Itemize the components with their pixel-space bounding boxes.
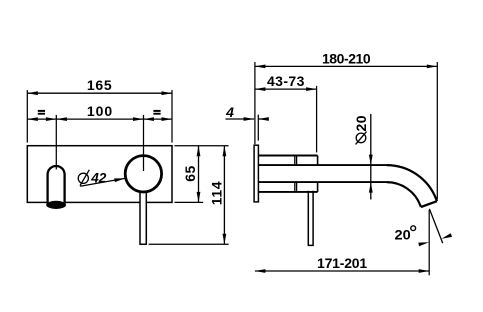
dimension line 165 [27,92,172,94]
svg-text:20: 20 [353,115,369,132]
extension line plate right edge [171,90,173,143]
wall plate (front view) [27,146,172,203]
spout body (front view) [48,166,65,204]
dimension line 180-210 [255,65,437,67]
dimension line 43-73 [255,88,317,90]
spout tip face [421,201,437,207]
spout outer curve [387,165,437,201]
spout tube bottom edge [258,181,386,183]
diameter symbol of label 42 [78,170,89,186]
leader line for diameter 42 [80,178,125,186]
angle arrow at vertical line [418,242,429,246]
svg-text:20: 20 [395,227,411,243]
angle arrow at slant line [442,233,453,238]
spout inner curve [387,182,421,207]
dimension line 65 [198,146,200,203]
dimension line diameter 20 [370,114,372,200]
angle reference line 20 deg [429,209,442,243]
svg-text:180-210: 180-210 [322,50,371,66]
body right end edges [317,156,319,192]
body joint lines [295,156,297,191]
dimension line 4 [226,118,255,120]
extension line spout outlet [428,210,430,275]
svg-text:171-201: 171-201 [317,255,367,271]
handle centerline [143,115,145,171]
svg-text:100: 100 [87,103,113,119]
spout outlet ellipse [46,201,66,209]
svg-text:114: 114 [208,181,224,205]
extension line wall face [254,62,256,144]
equal mark left [38,110,45,112]
diameter symbol of label 20 [356,132,367,145]
handle lever rod (front view) [140,189,146,244]
extension line plate left edge [26,90,28,143]
handle rosette circle [125,156,161,192]
spout tube top edge [258,164,386,166]
dimension line 114 [223,146,225,245]
extension line plate bottom right [175,201,204,203]
extension line spout tip outer [436,62,438,199]
svg-text:4: 4 [225,104,234,120]
extension line plate front face [257,115,259,141]
extension line lever bottom [149,243,229,245]
equal mark right [153,110,160,112]
body top edge [258,155,317,157]
dimension line 171-201 [255,270,429,272]
spout centerline [55,115,57,169]
svg-text:165: 165 [87,77,112,93]
handle lever rod (side view) [308,191,313,246]
wall plate (side view) [254,145,258,202]
dimension line 100 with equal offsets [27,118,172,120]
svg-text:43-73: 43-73 [267,73,305,89]
svg-text:65: 65 [182,165,198,182]
extension line body end [316,86,318,152]
body bottom edge [258,191,317,193]
extension line plate top right [175,145,229,147]
